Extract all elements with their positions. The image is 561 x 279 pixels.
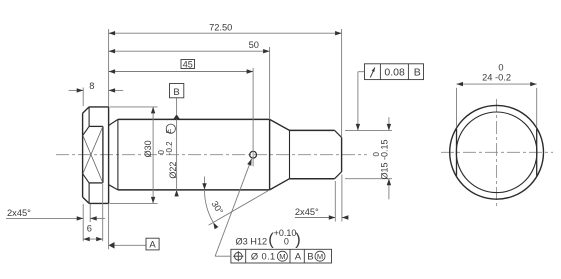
svg-text:0.08: 0.08 (384, 67, 405, 79)
svg-text:50: 50 (249, 40, 259, 50)
svg-text:Ø30: Ø30 (143, 140, 153, 157)
svg-text:): ) (295, 231, 301, 249)
svg-text:B: B (173, 87, 179, 98)
svg-text:A: A (295, 252, 302, 263)
svg-text:-0.2: -0.2 (165, 141, 174, 155)
svg-text:A: A (149, 239, 156, 250)
svg-text:0: 0 (284, 237, 289, 247)
svg-text:6: 6 (87, 223, 92, 233)
svg-text:M: M (279, 252, 285, 261)
svg-text:Ø3 H12: Ø3 H12 (236, 236, 268, 246)
svg-text:2x45°: 2x45° (7, 208, 31, 218)
svg-text:Ø15 -0.15: Ø15 -0.15 (379, 139, 389, 179)
svg-text:B: B (307, 252, 313, 263)
svg-text:0: 0 (498, 63, 503, 73)
svg-text:2x45°: 2x45° (295, 207, 319, 217)
svg-text:8: 8 (89, 81, 94, 91)
svg-text:(: ( (268, 231, 274, 249)
svg-text:M: M (317, 252, 323, 261)
svg-text:B: B (414, 67, 421, 79)
svg-text:72.50: 72.50 (209, 23, 232, 33)
svg-text:Ø 0.1: Ø 0.1 (251, 252, 276, 262)
svg-text:24 -0.2: 24 -0.2 (482, 72, 511, 82)
svg-text:E: E (166, 129, 173, 134)
svg-text:45: 45 (183, 59, 193, 69)
svg-text:Ø22: Ø22 (168, 162, 178, 179)
svg-text:0: 0 (372, 152, 381, 157)
